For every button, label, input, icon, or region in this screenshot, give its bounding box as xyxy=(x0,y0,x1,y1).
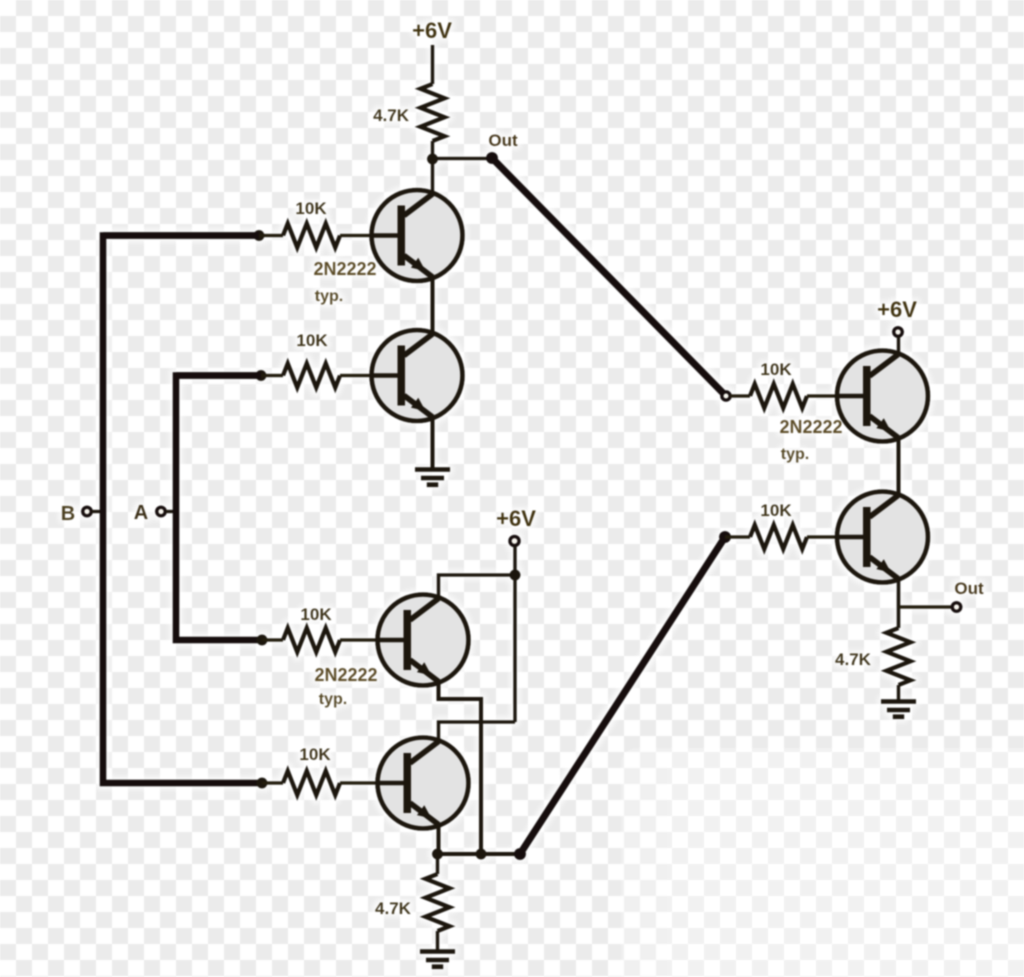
wire lead to R7 xyxy=(730,394,750,398)
svg-text:Out: Out xyxy=(488,131,518,150)
resistor R3 10K xyxy=(283,364,340,388)
wire R2 to Q1 base xyxy=(340,234,373,238)
wire B stub xyxy=(92,510,104,514)
svg-text:Out: Out xyxy=(954,579,984,598)
svg-text:+6V: +6V xyxy=(496,506,536,531)
node dot A row 2 xyxy=(256,370,267,381)
wire R7 to Q5 base xyxy=(807,394,838,398)
svg-text:4.7K: 4.7K xyxy=(835,650,872,669)
terminal circle +6V right xyxy=(894,328,903,337)
wire A stub xyxy=(166,510,177,514)
wire thick diagonal NOR output to Q6 input xyxy=(520,537,725,854)
wire Q5 emitter to Q6 collector xyxy=(897,437,901,496)
svg-text:10K: 10K xyxy=(760,360,792,379)
svg-text:10K: 10K xyxy=(300,605,332,624)
svg-text:2N2222: 2N2222 xyxy=(314,665,377,685)
terminal circle A xyxy=(157,507,166,516)
resistor R5 10K xyxy=(283,771,340,795)
svg-text:typ.: typ. xyxy=(781,446,809,463)
wire node to R6 xyxy=(436,854,440,874)
wire rail to Q3 collector xyxy=(439,575,516,598)
wire +6V rail down xyxy=(513,546,517,722)
svg-text:10K: 10K xyxy=(299,745,331,764)
node dot Q3 emitter junction xyxy=(476,849,487,860)
resistor R2 10K xyxy=(283,224,340,248)
terminal circle Out right xyxy=(952,603,961,612)
transistor Q4 2N2222 xyxy=(378,738,469,829)
wire R8 to Q6 base xyxy=(807,535,838,539)
svg-text:10K: 10K xyxy=(296,331,328,350)
wire lead to R3 xyxy=(261,374,283,378)
resistor R1 4.7K (vertical) xyxy=(421,84,445,141)
wire +6V to resistor R1 xyxy=(431,45,435,84)
node dot on +6V rail xyxy=(510,570,521,581)
ground symbol below R9 xyxy=(881,702,916,717)
node dot emitter/R junction xyxy=(432,849,443,860)
svg-text:2N2222: 2N2222 xyxy=(313,259,376,279)
wire bottom node horizontal xyxy=(438,852,521,856)
terminal circle +6V middle xyxy=(510,536,519,545)
svg-text:2N2222: 2N2222 xyxy=(779,417,842,437)
svg-text:B: B xyxy=(61,503,75,525)
wire R9 to ground xyxy=(897,685,901,701)
ground symbol below Q2 xyxy=(415,470,450,485)
wire R3 to Q2 base xyxy=(340,374,373,378)
wire thick A bus vertical xyxy=(176,376,262,641)
node dot Q6 input xyxy=(719,531,731,543)
svg-text:typ.: typ. xyxy=(315,288,343,305)
wire to Out terminal xyxy=(899,605,953,609)
wire R1 to Q1 collector xyxy=(431,141,435,194)
node Out dot xyxy=(486,152,498,164)
transistor Q3 2N2222 xyxy=(378,595,469,686)
wire Q2 emitter to ground xyxy=(431,417,435,468)
svg-text:10K: 10K xyxy=(760,501,792,520)
node dot B row 1 xyxy=(254,230,265,241)
wire Q1 emitter to Q2 collector xyxy=(431,277,435,334)
svg-text:typ.: typ. xyxy=(319,691,347,708)
resistor R8 10K xyxy=(750,525,807,549)
wire thick A bus row 2 xyxy=(176,372,261,379)
faint white overlay rectangle bottom right xyxy=(621,748,1024,977)
wire R6 to ground xyxy=(436,931,440,951)
svg-text:A: A xyxy=(134,502,148,524)
wire R5 to Q4 base xyxy=(340,781,379,785)
resistor R6 4.7K (vertical) xyxy=(426,874,450,931)
svg-text:10K: 10K xyxy=(295,199,327,218)
transistor Q2 2N2222 xyxy=(372,330,463,421)
wire thick diagonal Out to Q5 input xyxy=(492,158,723,393)
ground symbol below R6 xyxy=(420,952,455,967)
wire lead to R5 xyxy=(262,781,283,785)
wire thick B bus row 1 xyxy=(103,232,259,239)
wire Q3 emitter down to node xyxy=(439,681,482,854)
node dot B row 4 xyxy=(257,778,268,789)
wire Q4 emitter to bottom node xyxy=(437,824,441,854)
svg-text:+6V: +6V xyxy=(877,297,917,322)
svg-text:+6V: +6V xyxy=(412,18,452,43)
node junction dot at Q1 collector xyxy=(427,154,438,165)
wire +6V to Q5 collector xyxy=(897,337,901,356)
terminal circle B xyxy=(83,507,92,516)
node dot NOR output xyxy=(514,848,526,860)
resistor R9 4.7K (vertical) xyxy=(887,628,911,685)
svg-text:4.7K: 4.7K xyxy=(375,899,412,918)
wire lead to R2 xyxy=(259,234,283,238)
transistor Q1 2N2222 xyxy=(372,190,463,281)
wire R4 to Q3 base xyxy=(340,638,379,642)
transistor Q5 2N2222 xyxy=(837,351,928,442)
resistor R4 10K xyxy=(283,628,340,652)
wire Q6 emitter down xyxy=(897,578,901,628)
transistor Q6 2N2222 xyxy=(837,492,928,583)
wire rail to Q4 collector xyxy=(439,722,516,741)
wire lead to R4 xyxy=(262,638,283,642)
resistor R7 10K xyxy=(750,384,807,408)
wire lead to R8 xyxy=(725,535,750,539)
wire thick B bus vertical xyxy=(103,236,262,784)
svg-text:4.7K: 4.7K xyxy=(373,106,410,125)
wire collector node to Out node xyxy=(433,157,493,161)
terminal circle Q5 input xyxy=(722,392,730,400)
node dot A row 3 xyxy=(257,635,268,646)
